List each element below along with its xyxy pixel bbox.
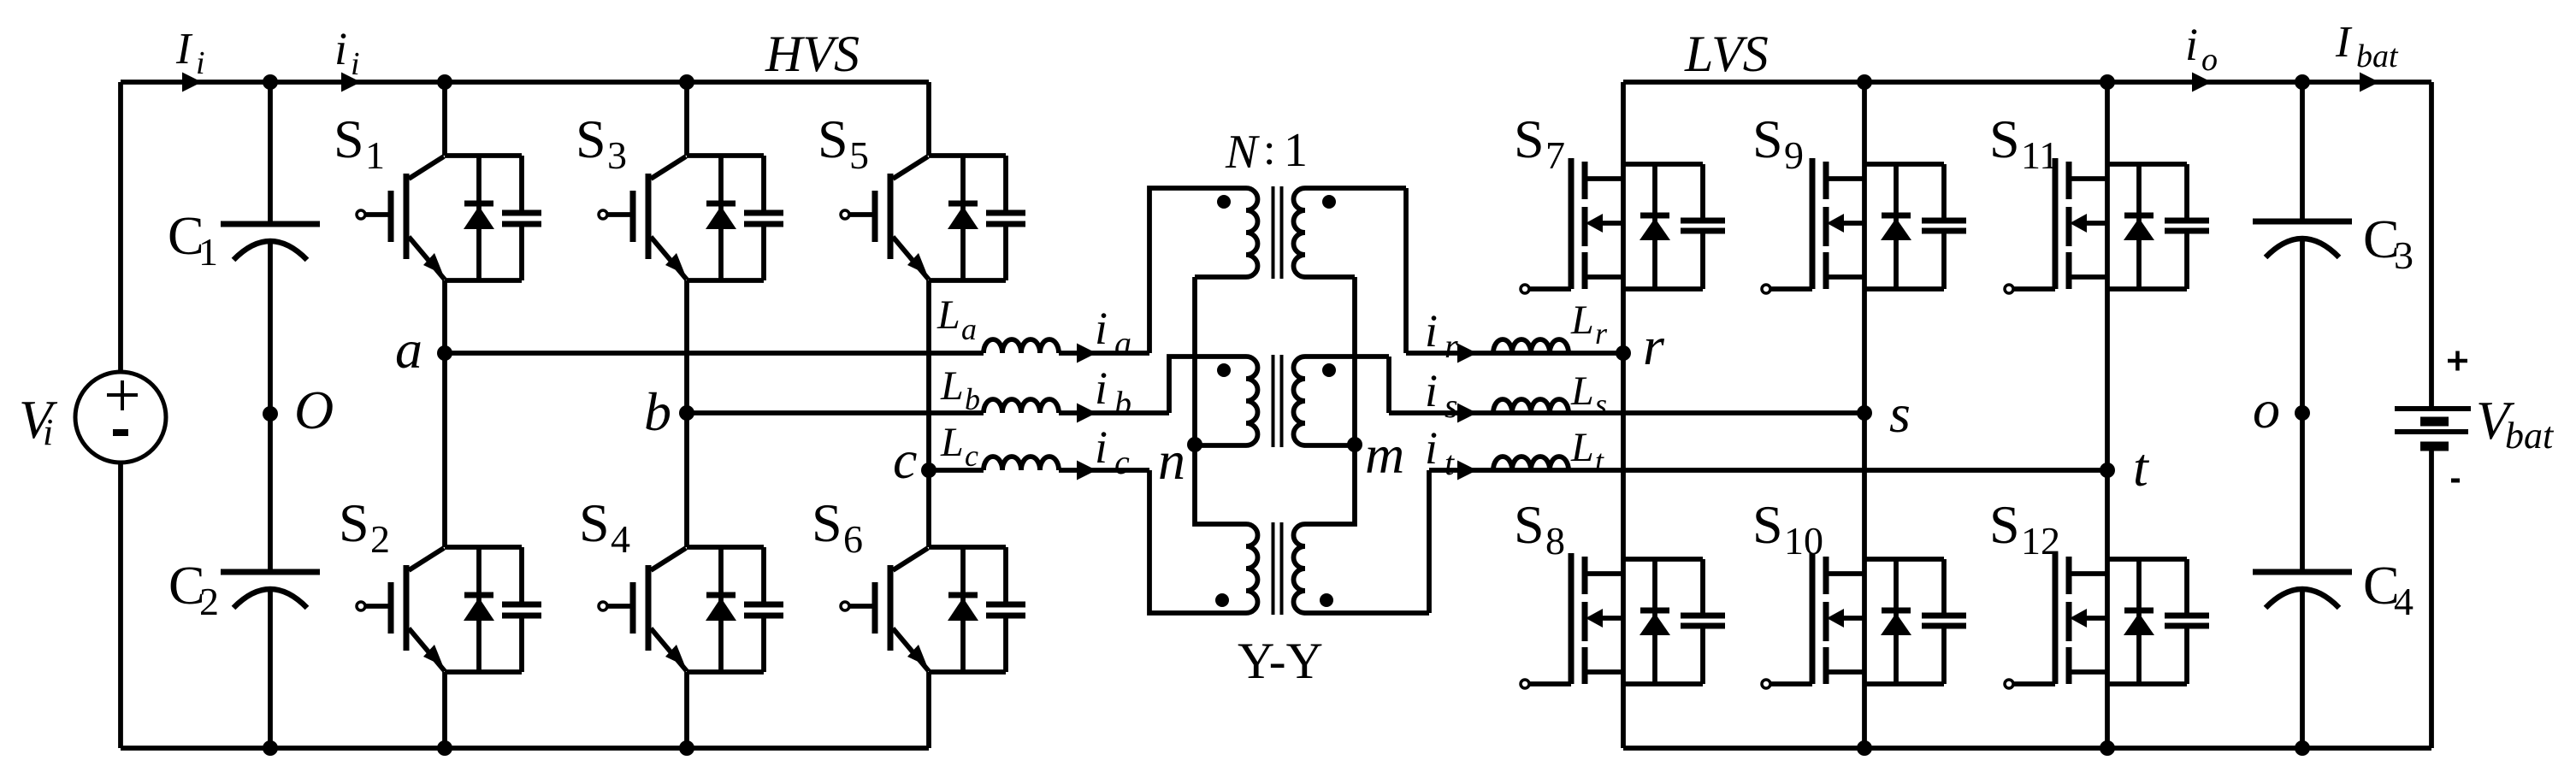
svg-text::: :	[1263, 126, 1275, 174]
wire T2 secondary to s line	[1386, 357, 1391, 413]
current arrow ic	[1077, 461, 1096, 480]
wire node o to C4	[2300, 413, 2305, 572]
MOSFET switch S11 with antiparallel diode and snubber capacitor	[1989, 109, 2209, 293]
MOSFET switch S7 with antiparallel diode and snubber capacitor	[1514, 109, 1725, 293]
wire bottom bus HVS	[121, 746, 929, 751]
T1 primary polarity dot	[1217, 195, 1231, 209]
svg-text:S: S	[334, 109, 364, 169]
label Lb value	[940, 363, 980, 416]
junction bottom bus / leg S10	[1857, 740, 1872, 756]
svg-text:t: t	[1595, 444, 1604, 478]
wire node s to S10 drain	[1862, 413, 1867, 559]
node b	[679, 405, 694, 421]
svg-text:S: S	[1989, 109, 2020, 169]
svg-text:i: i	[43, 411, 53, 453]
wire C1 to node O	[268, 243, 273, 414]
svg-text:I: I	[175, 25, 193, 74]
wire phase b riser to T2 primary	[1169, 357, 1246, 413]
svg-text:11: 11	[2021, 133, 2059, 177]
svg-text:S: S	[1514, 109, 1545, 169]
svg-text:S: S	[579, 492, 610, 553]
IGBT switch S1 with antiparallel diode and snubber capacitor	[334, 109, 541, 280]
IGBT switch S6 with antiparallel diode and snubber capacitor	[812, 492, 1025, 672]
svg-text:L: L	[940, 363, 964, 409]
wire bottom bus LVS	[1623, 746, 2431, 751]
IGBT switch S2 with antiparallel diode and snubber capacitor	[339, 492, 541, 672]
T1 core lines	[1273, 186, 1282, 279]
svg-text:4: 4	[611, 517, 630, 561]
svg-text:2: 2	[370, 517, 390, 561]
wire r line from transformer	[1406, 351, 1623, 356]
label current ii	[334, 23, 360, 82]
svg-text:L: L	[1570, 298, 1594, 343]
IGBT switch S5 with antiparallel diode and snubber capacitor	[818, 109, 1025, 280]
wire leg S4 emitter to bottom bus	[684, 672, 689, 748]
svg-text:b: b	[644, 381, 671, 442]
current arrow is	[1457, 404, 1477, 423]
wire C2 to bottom bus	[268, 591, 273, 748]
junction top bus / C3 branch	[2295, 74, 2310, 90]
label Lc value	[940, 420, 978, 473]
MOSFET switch S10 with antiparallel diode and snubber capacitor	[1752, 494, 1966, 688]
svg-text:r: r	[1643, 315, 1665, 376]
svg-text:9: 9	[1784, 133, 1804, 177]
wire leg S8 source to bottom bus	[1621, 684, 1626, 748]
svg-text:i: i	[1095, 362, 1108, 414]
node s	[1857, 405, 1872, 421]
svg-text:HVS: HVS	[765, 26, 860, 82]
current arrow ir	[1457, 344, 1477, 363]
wire leg S1 collector to top bus	[442, 82, 447, 156]
wire leg S7 drain to top bus	[1621, 82, 1626, 164]
T2 core lines	[1273, 355, 1282, 447]
wire node c to S6 collector	[926, 470, 931, 547]
wire node m to T3 secondary	[1305, 445, 1355, 524]
wire leg S9 drain to top bus	[1862, 82, 1867, 164]
wire T1 secondary to r line	[1403, 188, 1409, 353]
label turns ratio N:1	[1225, 124, 1308, 179]
wire node a to S2 collector	[442, 353, 447, 547]
T1 secondary polarity dot	[1322, 195, 1336, 209]
junction bottom bus / leg S12	[2100, 740, 2115, 756]
svg-text:5: 5	[849, 133, 869, 177]
junction bottom bus / C4 branch	[2295, 740, 2310, 756]
wire right rail upper (top bus to battery +)	[2429, 82, 2434, 409]
wire leg S11 source to node t	[2105, 289, 2110, 470]
wire leg S12 source to bottom bus	[2105, 684, 2110, 748]
svg-text:S: S	[576, 109, 606, 169]
wire phase c to transformer	[1059, 468, 1149, 473]
label current ic	[1095, 421, 1130, 481]
node a	[437, 345, 452, 361]
T2 secondary winding	[1294, 357, 1306, 445]
node c	[921, 463, 936, 478]
svg-text:i: i	[1425, 365, 1438, 416]
current arrow it	[1457, 461, 1477, 480]
current arrow ia	[1077, 344, 1096, 363]
svg-text:S: S	[812, 492, 842, 553]
capacitor C3	[2253, 209, 2414, 277]
svg-text:a: a	[395, 319, 422, 380]
svg-text:bat: bat	[2356, 38, 2399, 74]
label Lr value	[1570, 298, 1608, 351]
svg-text:I: I	[2335, 18, 2353, 67]
svg-text:1: 1	[365, 133, 385, 177]
MOSFET switch S12 with antiparallel diode and snubber capacitor	[1989, 494, 2209, 688]
svg-text:s: s	[1889, 383, 1911, 444]
node o	[2295, 405, 2310, 421]
wire node b to S4 collector	[684, 413, 689, 547]
node m	[1347, 437, 1362, 452]
label current ib	[1095, 362, 1131, 422]
label current is	[1425, 365, 1458, 425]
wire leg S2 emitter to bottom bus	[442, 672, 447, 748]
T1 primary winding	[1246, 188, 1258, 277]
wire node r to S8 drain	[1621, 353, 1626, 559]
wire phase b from node b	[687, 410, 984, 416]
svg-text:o: o	[2253, 379, 2280, 439]
svg-text:N: N	[1225, 126, 1260, 179]
svg-text:L: L	[940, 420, 964, 465]
T2 secondary bottom lead to node m	[1305, 443, 1355, 448]
wire leg S1 emitter to node a	[442, 280, 447, 353]
label Ls value	[1570, 368, 1607, 421]
junction top bus / C1 branch	[263, 74, 278, 90]
IGBT switch S4 with antiparallel diode and snubber capacitor	[579, 492, 783, 672]
wire T1 primary bottom to node n	[1192, 277, 1197, 445]
wire C1 branch from top bus	[268, 82, 273, 224]
svg-text:o: o	[2201, 42, 2218, 78]
svg-text:1: 1	[198, 230, 218, 274]
T3 core lines	[1273, 522, 1282, 615]
current arrow ii	[341, 73, 361, 92]
T3 primary winding	[1246, 524, 1258, 613]
svg-text:a: a	[1114, 324, 1131, 362]
inductor Lr	[1493, 339, 1569, 353]
MOSFET switch S8 with antiparallel diode and snubber capacitor	[1514, 494, 1725, 688]
svg-text:3: 3	[607, 133, 627, 177]
svg-text:i: i	[1095, 421, 1108, 473]
T1 secondary top lead	[1305, 186, 1406, 191]
capacitor C4	[2253, 555, 2414, 623]
svg-text:i: i	[2185, 19, 2198, 70]
MOSFET switch S9 with antiparallel diode and snubber capacitor	[1752, 109, 1966, 293]
svg-text:S: S	[1752, 109, 1783, 169]
junction top bus / leg S11	[2100, 74, 2115, 90]
wire leg S3 collector to top bus	[684, 82, 689, 156]
T1 secondary winding	[1294, 188, 1306, 277]
voltage source Vi	[19, 372, 166, 463]
svg-text:n: n	[1158, 430, 1185, 491]
label current Ii	[175, 25, 205, 81]
node r	[1616, 345, 1631, 361]
label current io	[2185, 19, 2218, 78]
svg-text:2: 2	[199, 580, 219, 623]
svg-text:c: c	[893, 429, 917, 490]
wire right rail lower (battery - to bottom bus)	[2429, 446, 2434, 748]
wire node O to C2	[268, 414, 273, 572]
wire node t to S12 drain	[2105, 470, 2110, 559]
svg-text:LVS: LVS	[1684, 26, 1769, 82]
svg-text:O: O	[294, 380, 334, 440]
wire phase a to transformer	[1059, 351, 1149, 356]
wire phase a riser to T1 primary	[1149, 188, 1246, 353]
junction top bus / leg S9	[1857, 74, 1872, 90]
wire left rail upper (Vi to top bus)	[118, 82, 123, 373]
T2 primary polarity dot	[1217, 363, 1231, 377]
current arrow ib	[1077, 404, 1096, 423]
label current Ibat	[2335, 18, 2399, 74]
T2 secondary polarity dot	[1322, 363, 1336, 377]
wire T3 secondary to t line	[1427, 470, 1432, 613]
svg-text:L: L	[1570, 425, 1594, 470]
wire leg S5 emitter to node c	[926, 280, 931, 470]
svg-text:t: t	[2133, 437, 2150, 498]
T2 primary winding	[1246, 357, 1258, 445]
svg-text:s: s	[1595, 387, 1607, 421]
svg-text:7: 7	[1545, 133, 1565, 177]
label current ia	[1095, 303, 1131, 362]
T3 primary polarity dot	[1215, 593, 1229, 607]
wire phase b to transformer	[1059, 410, 1169, 416]
svg-text:12: 12	[2021, 519, 2060, 563]
wire leg S9 source to node s	[1862, 289, 1867, 413]
transformer T1 (phase a-r)	[1195, 186, 1406, 445]
svg-text:S: S	[1989, 494, 2020, 555]
label Lt value	[1570, 425, 1604, 478]
current arrow Ii	[182, 73, 202, 92]
wire C3 to node o	[2300, 240, 2305, 413]
svg-text:m: m	[1365, 424, 1404, 485]
wire T1 secondary bottom to node m	[1352, 277, 1357, 445]
svg-text:1: 1	[1284, 124, 1308, 177]
T1 primary bottom lead	[1195, 274, 1246, 280]
inductor Ls	[1493, 399, 1569, 413]
wire leg S11 drain to top bus	[2105, 82, 2110, 164]
junction top bus / leg S3	[679, 74, 694, 90]
wire t line from transformer	[1429, 468, 2107, 473]
svg-text:s: s	[1445, 386, 1458, 425]
node t	[2100, 463, 2115, 478]
svg-text:S: S	[1752, 494, 1783, 555]
svg-text:S: S	[1514, 494, 1545, 555]
wire C4 to bottom bus	[2300, 591, 2305, 748]
wire top bus LVS	[1623, 80, 2431, 85]
svg-text:L: L	[1570, 368, 1594, 414]
wire leg S7 source to node r	[1621, 289, 1626, 353]
svg-text:S: S	[339, 492, 369, 553]
T3 secondary winding	[1294, 524, 1306, 613]
svg-text:8: 8	[1545, 519, 1565, 563]
svg-text:c: c	[965, 439, 978, 473]
wire leg S10 source to bottom bus	[1862, 684, 1867, 748]
svg-text:L: L	[936, 292, 960, 338]
inductor Lc	[984, 457, 1059, 470]
junction bottom bus / leg S2	[437, 740, 452, 756]
svg-text:i: i	[334, 23, 347, 74]
svg-text:bat: bat	[2505, 415, 2555, 457]
svg-text:i: i	[1425, 422, 1438, 474]
battery Vbat	[2395, 351, 2555, 481]
capacitor C2	[168, 555, 320, 623]
junction top bus / leg S1	[437, 74, 452, 90]
wire leg S5 collector to top bus	[926, 82, 931, 156]
wire leg S6 emitter to bottom bus	[926, 672, 931, 748]
T3 secondary polarity dot	[1320, 593, 1333, 607]
svg-text:a: a	[961, 312, 977, 346]
junction bottom bus / C2 branch	[263, 740, 278, 756]
wire phase a from node a	[445, 351, 984, 356]
svg-text:S: S	[818, 109, 848, 169]
inductor Lt	[1493, 457, 1569, 470]
capacitor C1	[168, 205, 320, 274]
wire s line from transformer	[1389, 410, 1864, 416]
svg-text:10: 10	[1784, 519, 1823, 563]
svg-text:r: r	[1595, 316, 1608, 351]
transformer T2 (phase b-s)	[1195, 355, 1389, 447]
svg-text:r: r	[1445, 327, 1458, 365]
wire node n to T3 primary	[1195, 445, 1246, 524]
svg-text:i: i	[196, 45, 205, 81]
node n	[1187, 437, 1202, 452]
svg-text:t: t	[1445, 444, 1455, 482]
transformer T3 (phase c-t)	[1215, 470, 1429, 615]
junction bottom bus / leg S4	[679, 740, 694, 756]
wire C3 branch from top bus	[2300, 82, 2305, 221]
wire top bus HVS	[121, 80, 929, 85]
T2 secondary top lead	[1305, 354, 1389, 359]
svg-text:c: c	[1114, 443, 1130, 481]
svg-text:i: i	[351, 46, 360, 82]
T3 secondary bottom lead	[1305, 610, 1429, 616]
current arrow Ibat	[2360, 73, 2379, 92]
current arrow io	[2192, 73, 2212, 92]
svg-text:i: i	[1425, 305, 1438, 357]
wire left rail lower (Vi to bottom bus)	[118, 462, 123, 748]
wire leg S3 emitter to node b	[684, 280, 689, 413]
svg-text:3: 3	[2394, 233, 2414, 277]
svg-text:b: b	[1114, 384, 1131, 422]
label current ir	[1425, 305, 1458, 365]
T2 primary bottom lead to node n	[1195, 443, 1246, 448]
inductor La	[984, 339, 1059, 353]
svg-text:i: i	[1095, 303, 1108, 354]
svg-text:4: 4	[2394, 580, 2414, 623]
inductor Lb	[984, 399, 1059, 413]
wire phase c from node c	[929, 468, 984, 473]
svg-text:6: 6	[843, 517, 863, 561]
label current it	[1425, 422, 1455, 482]
node O	[263, 406, 278, 421]
svg-text:b: b	[965, 382, 980, 416]
svg-text:Y-Y: Y-Y	[1238, 633, 1323, 689]
IGBT switch S3 with antiparallel diode and snubber capacitor	[576, 109, 783, 280]
label La value	[936, 292, 977, 346]
wire phase c dropper to T3 primary	[1149, 470, 1246, 613]
T1 secondary bottom lead	[1305, 274, 1355, 280]
